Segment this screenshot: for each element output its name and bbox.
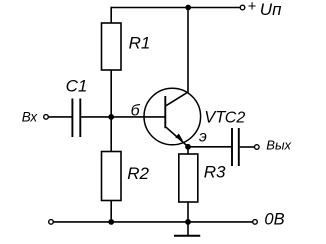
wire base lead (111, 116, 165, 118)
svg-text:э: э (199, 129, 207, 146)
svg-text:Uп: Uп (260, 0, 282, 19)
svg-text:C1: C1 (66, 77, 88, 96)
terminal Вых (254, 145, 259, 150)
terminal +Uп (240, 5, 245, 10)
node R2 bottom junction (108, 219, 114, 225)
wire R3 to bottom rail (187, 202, 189, 222)
svg-text:R2: R2 (127, 164, 149, 183)
svg-text:R1: R1 (129, 34, 151, 53)
node top junction (185, 5, 191, 11)
svg-text:Вых: Вых (266, 138, 291, 153)
terminal 0В (253, 220, 258, 225)
wire C1 to base node (81, 116, 111, 118)
capacitor C1 (72, 99, 80, 138)
wire emitter node to R3 (187, 147, 189, 154)
node R3 bottom junction (185, 219, 191, 225)
wire R1 top (110, 7, 112, 23)
svg-text:0В: 0В (264, 211, 284, 229)
wire top rail +Uп (111, 7, 240, 9)
terminal Вх (44, 115, 49, 120)
wire C2 to Вых (240, 146, 255, 148)
wire base node to R2 (110, 117, 112, 152)
svg-text:C2: C2 (225, 110, 246, 127)
wire emitter to C2 (188, 146, 231, 148)
wire Вх to C1 (48, 116, 71, 118)
node base junction (108, 114, 114, 120)
svg-text:R3: R3 (204, 163, 226, 182)
resistor R3 (179, 154, 198, 202)
svg-text:б: б (131, 103, 141, 120)
wire R1 bottom to base node (110, 70, 112, 117)
wire R2 to bottom rail (110, 201, 112, 223)
capacitor C2 (232, 128, 239, 166)
resistor R2 (102, 152, 122, 201)
svg-text:Вх: Вх (22, 110, 39, 125)
terminal bottom left (49, 220, 54, 225)
ground (174, 222, 200, 236)
svg-text:+: + (248, 0, 256, 15)
transistor VT (144, 8, 201, 147)
node emitter junction (185, 144, 191, 150)
resistor R1 (102, 23, 122, 70)
wire bottom rail 0В (53, 221, 252, 223)
